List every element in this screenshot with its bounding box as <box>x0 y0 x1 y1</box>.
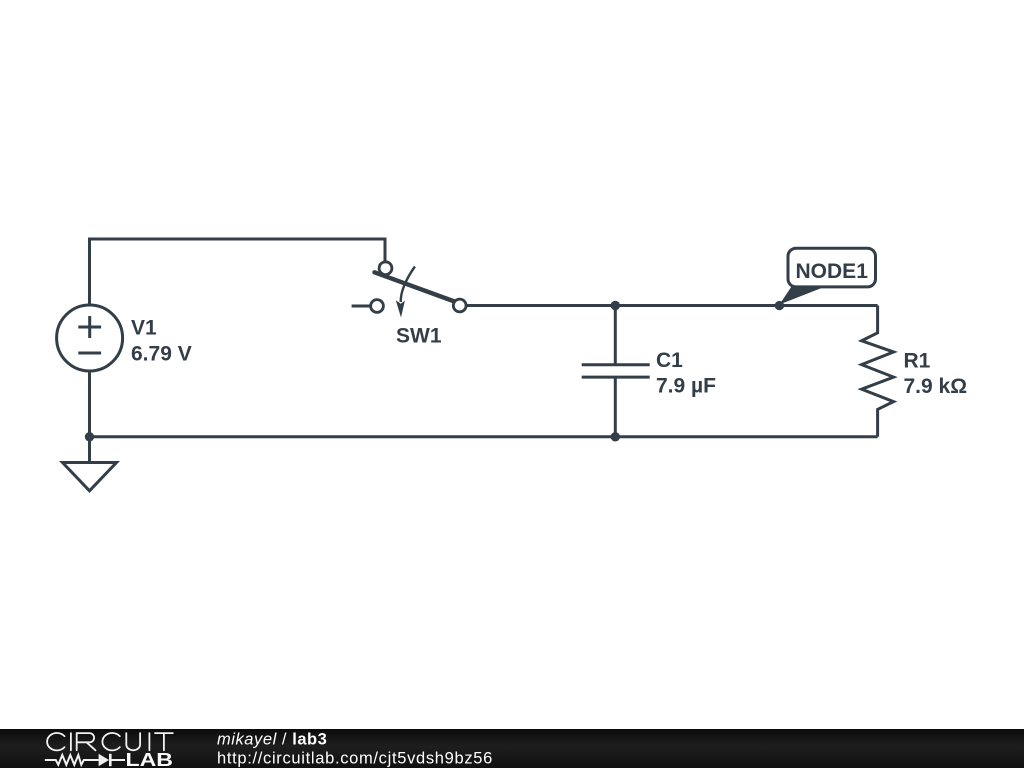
svg-text:7.9 kΩ: 7.9 kΩ <box>904 375 968 398</box>
node dot NODE1 <box>775 301 784 310</box>
voltage source V1 <box>57 305 123 371</box>
wire top rail: V1 top to switch top terminal <box>90 239 386 305</box>
svg-text:R1: R1 <box>904 349 931 372</box>
svg-text:NODE1: NODE1 <box>796 260 869 283</box>
wire top rail right: switch to resistor <box>466 304 877 307</box>
wire: ground stub <box>88 437 91 463</box>
svg-text:C1: C1 <box>656 349 683 372</box>
junction dot: C1 top rail <box>611 301 620 310</box>
CircuitLab logo: resistor+diode squiggle <box>45 754 125 766</box>
svg-text:LAB: LAB <box>126 749 174 768</box>
svg-text:7.9 µF: 7.9 µF <box>656 374 716 397</box>
NODE1 flag <box>780 248 876 304</box>
footer bar <box>0 729 1024 768</box>
wire bottom rail <box>90 435 878 438</box>
junction dot: C1 bottom rail <box>611 432 620 441</box>
CircuitLab logo: CIRCUIT wordmark <box>47 733 173 750</box>
ground <box>63 463 117 491</box>
junction dot: V1 bottom rail <box>85 432 94 441</box>
capacitor C1 <box>582 306 650 437</box>
wire: V1 bottom to bottom rail <box>88 371 91 437</box>
svg-text:mikayel / lab3: mikayel / lab3 <box>217 731 327 749</box>
resistor R1 <box>862 306 894 437</box>
switch SW1 <box>352 262 467 318</box>
svg-text:http://circuitlab.com/cjt5vdsh: http://circuitlab.com/cjt5vdsh9bz56 <box>217 750 493 768</box>
svg-text:6.79 V: 6.79 V <box>131 343 192 366</box>
svg-text:V1: V1 <box>131 317 157 340</box>
svg-text:SW1: SW1 <box>396 325 442 348</box>
